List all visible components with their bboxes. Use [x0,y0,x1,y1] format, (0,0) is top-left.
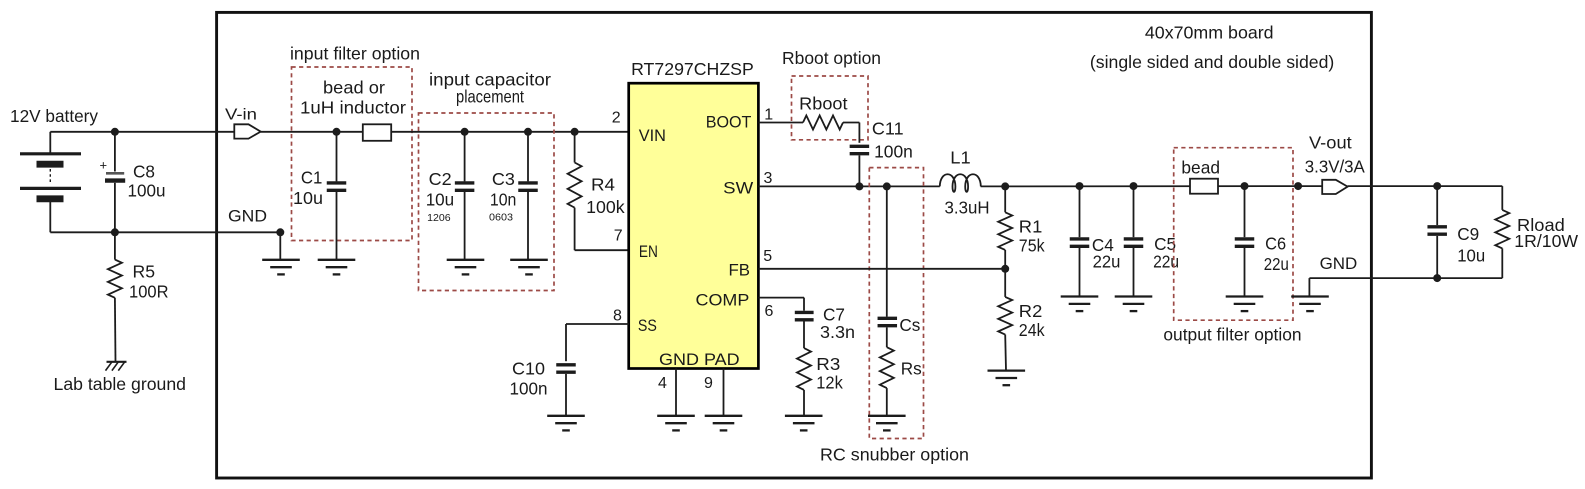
junction C11 to SW rail [855,182,863,190]
resistor R5 [114,232,116,259]
ground at output GND node [1291,295,1329,297]
resistor R2 [1004,269,1006,297]
junction R1/R2/FB [1001,265,1009,273]
ground below C6 [1226,295,1264,297]
junction C5 top [1130,182,1138,190]
svg-text:output filter option: output filter option [1163,325,1301,345]
svg-text:10n: 10n [490,189,517,209]
wire R4 to EN pin 7 [575,249,629,251]
resistor R3 [797,348,811,390]
RC snubber option dashed box [869,168,923,439]
svg-text:7: 7 [614,227,623,244]
ground below C1 [318,259,356,261]
junction C1 top [333,128,341,136]
svg-text:Cs: Cs [899,315,920,335]
resistor Rload [1501,186,1503,210]
output filter option dashed box [1174,148,1293,321]
Rboot option dashed box [792,76,869,140]
svg-text:3.3uH: 3.3uH [945,197,990,217]
svg-text:3.3V/3A: 3.3V/3A [1305,157,1365,177]
svg-text:12V battery: 12V battery [10,106,98,126]
svg-text:100n: 100n [510,379,548,399]
svg-text:C1: C1 [301,167,323,187]
wire COMP pin 6 [758,297,804,299]
svg-text:Rboot: Rboot [799,94,847,114]
pin 9 wire + ground [723,369,725,416]
junction C4 top [1076,182,1084,190]
svg-text:100k: 100k [586,197,625,217]
svg-text:R4: R4 [591,174,615,194]
svg-text:V-out: V-out [1309,132,1352,152]
junction battery/C8 top [111,128,119,136]
resistor Rs [880,347,894,388]
svg-text:9: 9 [704,375,713,392]
svg-text:0603: 0603 [489,212,513,224]
svg-text:RT7297CHZSP: RT7297CHZSP [631,59,754,79]
ferrite bead (output) [1190,179,1218,194]
wire L1 to V-out tag [981,185,1323,187]
svg-text:75k: 75k [1019,235,1045,255]
svg-text:C11: C11 [872,119,904,139]
svg-text:24k: 24k [1019,320,1045,340]
wire VIN rail [261,131,629,133]
ground below C5 [1115,295,1153,297]
resistor R1 [1004,186,1006,212]
svg-text:C3: C3 [492,169,515,189]
svg-text:1206: 1206 [427,212,451,224]
ground below C10 [547,415,585,417]
resistor R4 [574,132,576,163]
wire BOOT pin 1 [758,122,803,124]
svg-text:GND: GND [1320,255,1358,273]
svg-text:22u: 22u [1093,251,1121,271]
svg-text:4: 4 [658,375,667,392]
ferrite bead / inductor box [363,124,391,141]
svg-text:bead: bead [1181,158,1220,178]
svg-text:12k: 12k [816,372,843,392]
svg-text:R2: R2 [1019,301,1043,321]
ground below pin 9 [705,415,743,417]
ground below R2 [988,369,1026,371]
wire battery - / GND rail [50,231,280,233]
svg-text:Rs: Rs [901,359,922,379]
capacitor C2 [464,132,466,182]
svg-text:10u: 10u [293,188,323,208]
capacitor C3 [527,132,529,182]
svg-text:1uH inductor: 1uH inductor [300,98,406,118]
junction C9 top [1433,182,1441,190]
V-out tag [1322,180,1347,194]
svg-text:FB: FB [729,261,751,280]
wire SS pin 8 to C10 [566,323,629,325]
resistor Rboot [803,116,843,130]
junction L1 out / R1 [1001,182,1009,190]
wire V-out to Rload [1348,185,1503,187]
capacitor C8 [114,132,116,172]
regulator IC U1 RT7297CHZSP [629,83,759,368]
junction C6 top [1241,182,1249,190]
ground below C3 [510,259,548,261]
svg-text:VIN: VIN [639,126,666,145]
junction GND node [276,228,284,236]
svg-text:GND: GND [228,207,267,225]
svg-text:C8: C8 [133,161,155,181]
svg-text:6: 6 [765,303,774,320]
svg-text:C2: C2 [429,169,452,189]
svg-text:+: + [100,158,108,173]
svg-text:22u: 22u [1264,254,1289,274]
svg-text:3: 3 [764,170,773,187]
svg-text:8: 8 [613,307,622,324]
wire output GND rail [1309,277,1502,279]
svg-text:COMP: COMP [696,290,750,309]
inductor L1 [940,174,981,192]
junction before V-out tag [1294,182,1302,190]
junction C3 top [524,128,532,136]
svg-text:RC snubber option: RC snubber option [820,444,969,464]
input filter option dashed box [292,67,413,241]
svg-text:10u: 10u [426,189,455,209]
svg-text:GND PAD: GND PAD [659,350,740,369]
svg-text:40x70mm board: 40x70mm board [1145,23,1274,43]
svg-text:EN: EN [639,242,658,261]
ground below Rs [868,415,906,417]
svg-text:V-in: V-in [225,107,257,124]
wire battery + to V-in tag [50,131,234,133]
board outline [217,12,1372,478]
svg-text:5: 5 [763,248,772,265]
ground at input GND node [262,259,300,261]
svg-text:input filter option: input filter option [290,44,420,64]
capacitor C1 [336,132,338,182]
svg-text:SS: SS [638,316,657,335]
svg-text:R1: R1 [1019,216,1043,236]
svg-text:C10: C10 [512,359,545,379]
wire snubber branch [886,186,888,316]
battery BT1 [49,132,51,154]
ground below R3 [785,415,823,417]
svg-text:placement: placement [456,87,524,107]
svg-text:Rboot option: Rboot option [782,48,881,68]
input capacitor placement dashed box [419,113,555,291]
capacitor Cs [878,317,898,320]
svg-text:(single sided and double sided: (single sided and double sided) [1090,52,1334,72]
svg-text:2: 2 [612,109,621,126]
svg-text:C6: C6 [1265,233,1286,253]
junction R4 top [571,128,579,136]
svg-text:R3: R3 [816,354,840,374]
svg-text:1: 1 [764,107,773,124]
svg-text:100u: 100u [128,180,166,200]
ground below C2 [447,259,485,261]
svg-text:C9: C9 [1457,224,1479,244]
svg-text:1R/10W: 1R/10W [1514,231,1578,251]
junction snubber to SW rail [883,182,891,190]
svg-text:R5: R5 [133,261,156,281]
junction C2 top [461,128,469,136]
svg-text:Lab table ground: Lab table ground [54,374,187,394]
wire FB pin 5 to divider [758,268,1005,270]
earth ground: lab table [107,361,127,363]
junction C9 bottom [1433,274,1441,282]
wire SW pin 3 to L1 [758,185,939,187]
svg-text:10u: 10u [1457,245,1485,265]
ground below pin 4 [657,415,695,417]
capacitor C11 [850,145,870,148]
pin 4 wire + ground [675,369,677,416]
svg-text:BOOT: BOOT [706,112,752,131]
junction C8/R5 bottom [111,228,119,236]
svg-text:100R: 100R [129,282,169,302]
svg-text:bead or: bead or [323,77,385,97]
svg-text:100n: 100n [874,142,913,162]
capacitor C7 [795,311,814,314]
V-in tag [234,124,260,138]
capacitor C10 [556,363,576,366]
svg-text:SW: SW [723,178,753,197]
svg-text:L1: L1 [950,148,970,168]
ground below C4 [1061,295,1099,297]
svg-text:3.3n: 3.3n [820,322,855,342]
svg-text:22u: 22u [1153,251,1179,271]
